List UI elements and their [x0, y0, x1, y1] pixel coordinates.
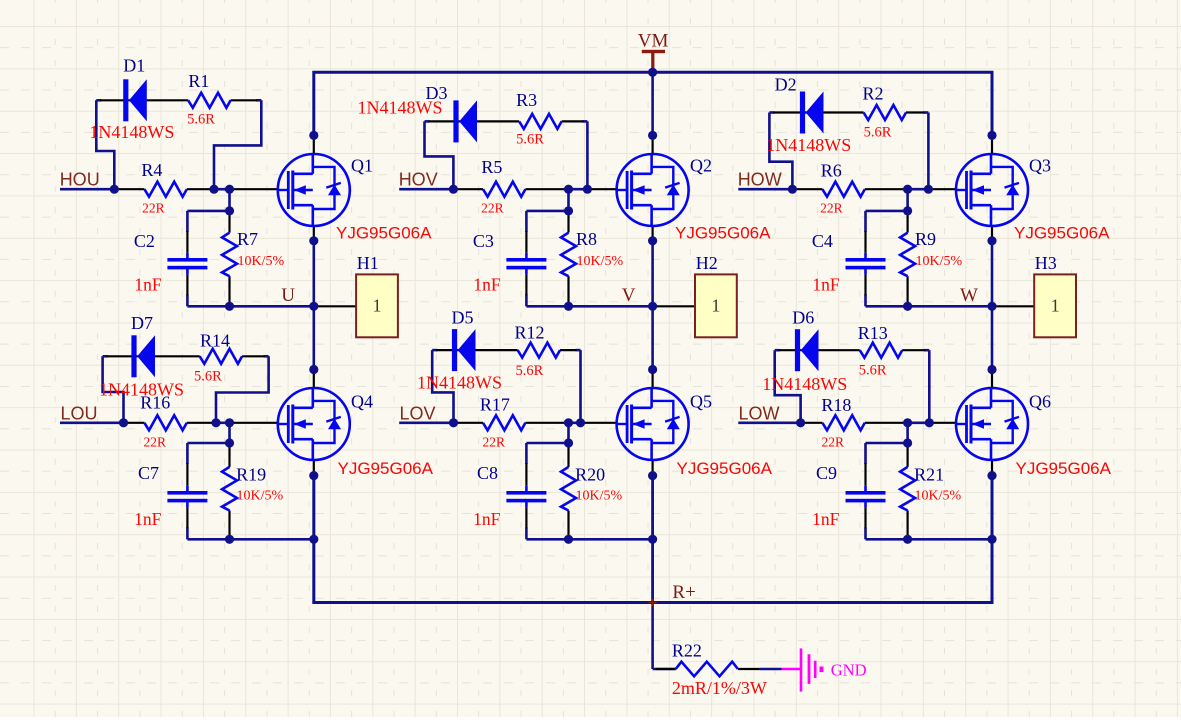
svg-text:1N4148WS: 1N4148WS — [358, 98, 443, 118]
svg-text:V: V — [622, 285, 636, 306]
svg-text:5.6R: 5.6R — [864, 125, 892, 141]
svg-text:1nF: 1nF — [134, 509, 162, 529]
svg-text:R6: R6 — [821, 160, 842, 180]
svg-text:C8: C8 — [477, 463, 498, 483]
svg-text:22R: 22R — [481, 201, 504, 216]
svg-text:1N4148WS: 1N4148WS — [417, 372, 502, 392]
svg-text:LOW: LOW — [739, 404, 780, 424]
svg-text:LOV: LOV — [400, 404, 436, 424]
svg-text:22R: 22R — [144, 434, 167, 449]
svg-text:1nF: 1nF — [812, 274, 840, 294]
svg-text:HOW: HOW — [738, 170, 782, 190]
svg-text:10K/5%: 10K/5% — [915, 488, 962, 503]
svg-text:5.6R: 5.6R — [859, 363, 887, 379]
svg-text:5.6R: 5.6R — [516, 363, 544, 379]
svg-text:YJG95G06A: YJG95G06A — [338, 459, 434, 478]
svg-text:2mR/1%/3W: 2mR/1%/3W — [672, 678, 767, 698]
svg-text:Q5: Q5 — [690, 392, 712, 412]
svg-text:1N4148WS: 1N4148WS — [766, 135, 851, 155]
svg-text:R3: R3 — [516, 90, 537, 110]
svg-text:Q3: Q3 — [1029, 156, 1051, 176]
svg-text:10K/5%: 10K/5% — [576, 488, 623, 503]
svg-text:5.6R: 5.6R — [194, 368, 222, 384]
svg-text:10K/5%: 10K/5% — [577, 254, 624, 269]
svg-text:R14: R14 — [200, 331, 230, 351]
svg-text:1N4148WS: 1N4148WS — [89, 122, 174, 142]
svg-text:YJG95G06A: YJG95G06A — [336, 224, 432, 243]
svg-text:R20: R20 — [575, 465, 605, 485]
svg-text:D6: D6 — [792, 308, 814, 328]
svg-text:22R: 22R — [820, 201, 843, 216]
svg-text:R19: R19 — [236, 465, 266, 485]
svg-text:C3: C3 — [473, 231, 494, 251]
svg-text:VM: VM — [638, 31, 669, 52]
svg-text:Q2: Q2 — [690, 156, 712, 176]
svg-text:R4: R4 — [141, 160, 162, 180]
svg-text:R+: R+ — [672, 582, 695, 603]
svg-text:5.6R: 5.6R — [187, 111, 215, 127]
svg-text:1N4148WS: 1N4148WS — [99, 379, 184, 399]
svg-text:Q1: Q1 — [351, 156, 373, 176]
svg-text:YJG95G06A: YJG95G06A — [677, 459, 773, 478]
svg-text:R1: R1 — [188, 71, 209, 91]
svg-text:10K/5%: 10K/5% — [237, 488, 284, 503]
svg-text:1nF: 1nF — [473, 274, 501, 294]
svg-text:5.6R: 5.6R — [516, 132, 544, 148]
svg-text:HOU: HOU — [60, 170, 100, 190]
svg-text:1nF: 1nF — [473, 509, 501, 529]
svg-text:YJG95G06A: YJG95G06A — [675, 224, 771, 243]
svg-text:10K/5%: 10K/5% — [238, 254, 285, 269]
svg-text:LOU: LOU — [61, 404, 98, 424]
svg-text:D2: D2 — [775, 75, 797, 95]
svg-text:D5: D5 — [452, 307, 474, 327]
svg-text:Q4: Q4 — [351, 392, 373, 412]
svg-text:H1: H1 — [357, 253, 379, 273]
svg-text:C2: C2 — [134, 231, 155, 251]
svg-text:H2: H2 — [696, 253, 718, 273]
svg-text:W: W — [960, 285, 978, 306]
svg-text:22R: 22R — [142, 201, 165, 216]
svg-text:R18: R18 — [821, 395, 851, 415]
svg-text:YJG95G06A: YJG95G06A — [1016, 459, 1112, 478]
svg-text:R9: R9 — [915, 229, 936, 249]
svg-text:R22: R22 — [672, 641, 702, 661]
svg-text:R8: R8 — [576, 229, 597, 249]
svg-text:GND: GND — [831, 661, 867, 680]
svg-text:1: 1 — [711, 296, 720, 316]
svg-text:R5: R5 — [481, 157, 502, 177]
svg-text:R2: R2 — [863, 84, 884, 104]
svg-text:R21: R21 — [914, 465, 944, 485]
svg-text:1N4148WS: 1N4148WS — [762, 374, 847, 394]
svg-text:C9: C9 — [816, 463, 837, 483]
svg-text:10K/5%: 10K/5% — [916, 254, 963, 269]
svg-text:22R: 22R — [822, 434, 845, 449]
svg-text:R7: R7 — [237, 229, 258, 249]
svg-text:U: U — [281, 285, 295, 306]
svg-text:1nF: 1nF — [134, 274, 162, 294]
svg-text:1nF: 1nF — [812, 509, 840, 529]
svg-text:D1: D1 — [123, 55, 145, 75]
svg-text:H3: H3 — [1035, 253, 1057, 273]
svg-text:C7: C7 — [138, 463, 159, 483]
svg-text:HOV: HOV — [399, 170, 438, 190]
svg-text:Q6: Q6 — [1029, 392, 1051, 412]
svg-text:R17: R17 — [480, 395, 510, 415]
svg-text:YJG95G06A: YJG95G06A — [1014, 224, 1110, 243]
svg-text:C4: C4 — [812, 231, 833, 251]
svg-text:1: 1 — [373, 296, 382, 316]
svg-text:R12: R12 — [515, 323, 545, 343]
svg-text:D7: D7 — [131, 313, 153, 333]
svg-text:22R: 22R — [483, 434, 506, 449]
svg-text:1: 1 — [1051, 296, 1060, 316]
svg-text:R13: R13 — [858, 323, 888, 343]
